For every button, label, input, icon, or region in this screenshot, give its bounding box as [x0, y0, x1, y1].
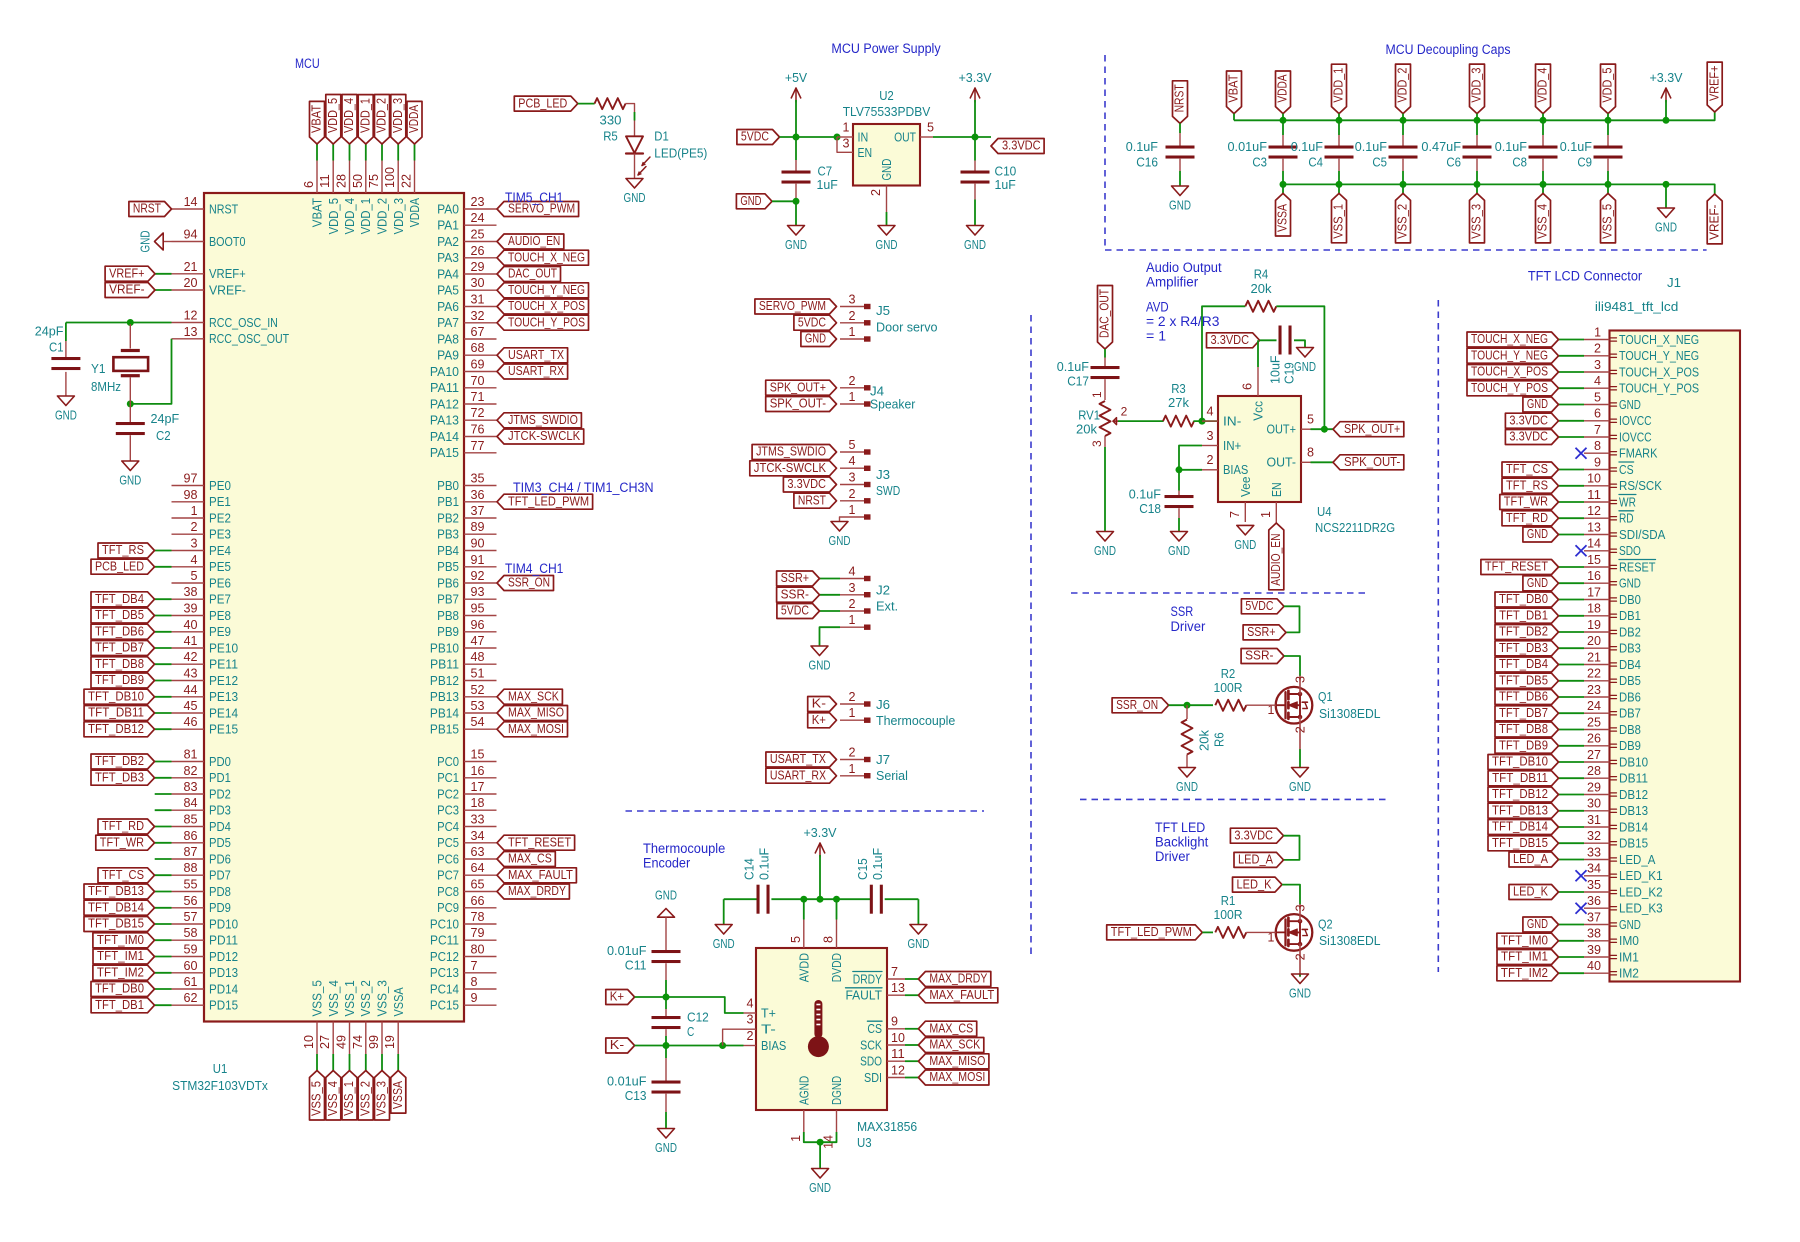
svg-text:8: 8 — [1594, 439, 1601, 453]
thermometer icon — [808, 1000, 829, 1057]
svg-text:35: 35 — [1587, 878, 1601, 892]
svg-text:100R: 100R — [1213, 680, 1242, 695]
wire — [905, 978, 918, 980]
pin EN (3) — [837, 137, 872, 160]
U1 reference — [213, 1061, 228, 1076]
pin SDI/SDA (13) — [1584, 520, 1666, 542]
svg-text:PE12: PE12 — [209, 673, 238, 688]
C5 reference — [1372, 155, 1387, 170]
svg-text:VDD_2: VDD_2 — [1396, 68, 1410, 103]
wire — [129, 404, 131, 422]
svg-text:4: 4 — [747, 996, 754, 1010]
svg-text:TFT_RS: TFT_RS — [102, 543, 144, 557]
svg-text:94: 94 — [184, 228, 198, 242]
svg-text:PC11: PC11 — [430, 933, 459, 948]
global label MAX_SCK — [918, 1038, 983, 1053]
junction — [1199, 418, 1206, 425]
svg-text:GND: GND — [1619, 917, 1641, 932]
R3 reference — [1171, 381, 1186, 396]
pin PB4 (90) — [437, 537, 496, 558]
svg-text:T-: T- — [761, 1022, 776, 1037]
J4 value — [870, 397, 916, 412]
pin PB11 (48) — [430, 650, 497, 671]
svg-text:93: 93 — [471, 585, 485, 599]
wire — [905, 1044, 918, 1046]
svg-text:0.1uF: 0.1uF — [1126, 139, 1158, 154]
svg-text:LED_A: LED_A — [1238, 853, 1274, 867]
pin RS/SCK (10) — [1584, 472, 1662, 494]
global label K+ — [808, 713, 837, 728]
global label JTCK-SWCLK — [497, 429, 584, 444]
svg-text:32: 32 — [471, 309, 485, 323]
svg-text:PD13: PD13 — [209, 965, 238, 980]
wire — [1559, 826, 1585, 828]
wire — [1294, 340, 1305, 347]
C10 reference — [995, 164, 1017, 179]
svg-text:97: 97 — [184, 472, 198, 486]
C4 reference — [1308, 155, 1323, 170]
pin TOUCH_Y_POS (4) — [1584, 374, 1699, 396]
global label 3.3VDC — [1505, 413, 1558, 428]
wire — [795, 100, 797, 137]
svg-text:Driver: Driver — [1171, 619, 1206, 634]
C1 value — [35, 324, 64, 339]
pin PC7 (64) — [437, 861, 496, 882]
pin PC9 (66) — [437, 894, 496, 915]
wire — [819, 1142, 821, 1168]
svg-text:GND: GND — [138, 231, 153, 253]
svg-text:PD14: PD14 — [209, 981, 238, 996]
wire — [625, 104, 634, 112]
wire — [1282, 184, 1284, 193]
global label 5VDC — [737, 130, 780, 145]
wire — [1233, 114, 1235, 121]
pin PE2 (1) — [172, 504, 231, 525]
svg-text:33: 33 — [471, 813, 485, 827]
svg-text:Si1308EDL: Si1308EDL — [1319, 933, 1381, 948]
pin TOUCH_Y_NEG (2) — [1584, 342, 1699, 364]
global label TFT_IM1 — [93, 949, 155, 964]
svg-text:53: 53 — [471, 699, 485, 713]
svg-text:PE5: PE5 — [209, 559, 231, 574]
svg-text:MAX_SCK: MAX_SCK — [508, 690, 559, 704]
capacitor C9 — [1594, 146, 1623, 159]
svg-text:4: 4 — [849, 565, 856, 579]
svg-text:TIM4_CH1: TIM4_CH1 — [505, 561, 563, 576]
svg-text:TFT_DB0: TFT_DB0 — [1499, 592, 1548, 606]
wire — [155, 988, 172, 990]
svg-text:0.1uF: 0.1uF — [757, 848, 772, 880]
svg-text:26: 26 — [1587, 732, 1601, 746]
global label TOUCH_Y_NEG — [1467, 348, 1559, 363]
wire — [1179, 171, 1181, 186]
pin DVDD (8) — [822, 920, 845, 983]
svg-text:3: 3 — [1090, 440, 1104, 447]
wire — [1246, 704, 1276, 706]
pin VSS_1 (49) — [335, 980, 358, 1054]
svg-text:GND: GND — [1527, 576, 1548, 590]
svg-text:0.1uF: 0.1uF — [1495, 139, 1527, 154]
resistor R4 — [1245, 301, 1276, 312]
svg-text:54: 54 — [471, 715, 485, 729]
ground (C2) — [119, 461, 141, 488]
wire rail right — [885, 898, 919, 900]
wire — [1299, 749, 1301, 767]
svg-text:VDD_1: VDD_1 — [358, 98, 372, 133]
svg-text:PB9: PB9 — [437, 624, 459, 639]
pin DGND (14) — [822, 1076, 845, 1149]
svg-text:TFT_DB10: TFT_DB10 — [1492, 755, 1548, 769]
svg-text:R4: R4 — [1254, 267, 1269, 282]
svg-text:47: 47 — [471, 634, 485, 648]
svg-text:GND: GND — [876, 237, 898, 252]
svg-text:VSS_3: VSS_3 — [375, 980, 390, 1016]
svg-text:27: 27 — [1587, 748, 1601, 762]
svg-text:TFT_RESET: TFT_RESET — [508, 836, 571, 850]
pin VSS_3 (99) — [367, 980, 390, 1054]
svg-text:81: 81 — [184, 748, 198, 762]
pin PD11 (58) — [172, 926, 239, 947]
pin FAULT (13) — [846, 981, 906, 1003]
svg-text:TFT_IM2: TFT_IM2 — [97, 966, 144, 980]
junction — [817, 1139, 824, 1146]
svg-text:TFT_IM1: TFT_IM1 — [97, 949, 144, 963]
svg-text:TFT_RESET: TFT_RESET — [1485, 560, 1548, 574]
pin PC5 (34) — [437, 829, 496, 850]
U4 reference — [1317, 504, 1332, 519]
svg-text:VDD_4: VDD_4 — [342, 98, 356, 133]
svg-text:PA2: PA2 — [437, 234, 459, 249]
svg-text:0.1uF: 0.1uF — [1355, 139, 1387, 154]
wire rail middle — [771, 898, 871, 900]
global label SSR+ — [777, 571, 820, 586]
svg-text:MAX_CS: MAX_CS — [929, 1022, 973, 1036]
svg-text:DB11: DB11 — [1619, 771, 1648, 786]
wire — [1559, 420, 1585, 422]
svg-text:29: 29 — [1587, 780, 1601, 794]
svg-text:30: 30 — [471, 276, 485, 290]
pin DB15 (32) — [1584, 829, 1648, 851]
junction — [1663, 117, 1670, 124]
svg-text:87: 87 — [184, 845, 198, 859]
svg-text:TFT_CS: TFT_CS — [102, 868, 144, 882]
U3 value — [857, 1119, 917, 1134]
capacitor C18 — [1165, 495, 1194, 508]
wire — [578, 103, 595, 105]
svg-text:MAX_MOSI: MAX_MOSI — [508, 722, 564, 736]
pin PC3 (18) — [437, 796, 496, 817]
svg-text:TFT_DB12: TFT_DB12 — [1492, 787, 1548, 801]
wire — [1559, 517, 1585, 519]
pin PC10 (78) — [430, 910, 497, 931]
svg-text:PB7: PB7 — [437, 592, 459, 607]
capacitor C5 — [1389, 146, 1418, 159]
wire — [905, 1028, 918, 1030]
global label TFT_DB8 — [91, 657, 155, 672]
svg-text:25: 25 — [471, 228, 485, 242]
global label TFT_DB15 — [84, 917, 155, 932]
wire — [1260, 339, 1277, 341]
global label TFT_RESET — [497, 835, 575, 850]
svg-text:+3.3V: +3.3V — [803, 825, 836, 840]
svg-text:4: 4 — [191, 553, 198, 567]
svg-text:LED_A: LED_A — [1619, 852, 1656, 867]
svg-text:3.3VDC: 3.3VDC — [787, 477, 826, 491]
wire — [839, 517, 842, 522]
note text — [1146, 275, 1199, 290]
wire — [917, 899, 919, 924]
wire — [1559, 647, 1585, 649]
svg-text:7: 7 — [891, 965, 898, 979]
wire — [1665, 184, 1667, 208]
global label TFT_DB12 — [1488, 787, 1559, 802]
svg-text:PE11: PE11 — [209, 657, 238, 672]
J6 value — [876, 713, 955, 728]
global label VDDA — [1276, 71, 1291, 114]
global label SSR_ON — [497, 576, 554, 591]
svg-text:J2: J2 — [876, 583, 890, 598]
global label USART_RX — [766, 768, 837, 783]
svg-text:78: 78 — [471, 910, 485, 924]
global label USART_TX — [497, 348, 568, 363]
capacitor C3 — [1269, 146, 1298, 159]
svg-text:NRST: NRST — [798, 493, 826, 507]
wire — [332, 144, 334, 161]
svg-text:JTCK-SWCLK: JTCK-SWCLK — [508, 429, 581, 443]
junction — [1176, 466, 1183, 473]
svg-text:PC1: PC1 — [437, 770, 459, 785]
wire — [665, 1036, 667, 1046]
svg-text:63: 63 — [471, 845, 485, 859]
svg-text:0.1uF: 0.1uF — [1129, 487, 1161, 502]
wire — [155, 939, 172, 941]
global label PCB_LED — [91, 559, 155, 574]
svg-text:16: 16 — [471, 764, 485, 778]
global label TFT_DB1 — [1495, 608, 1558, 623]
pin PE7 (38) — [172, 585, 231, 606]
resistor R5 — [595, 98, 626, 109]
svg-text:19: 19 — [383, 1035, 397, 1049]
wire — [1559, 745, 1585, 747]
svg-text:TFT_LED_PWM: TFT_LED_PWM — [508, 494, 589, 508]
wire — [155, 696, 172, 698]
svg-text:PD7: PD7 — [209, 868, 231, 883]
svg-text:0.01uF: 0.01uF — [1228, 139, 1268, 154]
svg-text:40: 40 — [184, 618, 198, 632]
global label TOUCH_Y_NEG — [497, 283, 589, 298]
wire TFT_LED_PWM to R1 — [1202, 931, 1213, 933]
junction — [1540, 117, 1547, 124]
svg-text:PA12: PA12 — [430, 396, 459, 411]
svg-text:MCU Decoupling Caps: MCU Decoupling Caps — [1386, 42, 1511, 57]
wire — [905, 994, 918, 996]
svg-text:VDD_3: VDD_3 — [391, 98, 405, 133]
wire — [1178, 508, 1180, 518]
global label VREF+ — [105, 266, 155, 281]
pin DB6 (23) — [1584, 683, 1641, 705]
svg-text:9: 9 — [891, 1015, 898, 1029]
svg-text:40: 40 — [1587, 959, 1601, 973]
svg-text:PCB_LED: PCB_LED — [518, 96, 567, 110]
svg-text:SSR-: SSR- — [781, 588, 809, 602]
ground (J3) — [829, 522, 851, 549]
svg-text:3: 3 — [849, 293, 856, 307]
svg-text:R2: R2 — [1221, 666, 1236, 681]
pin PE11 (42) — [172, 650, 239, 671]
svg-text:R6: R6 — [1212, 732, 1227, 747]
J1 reference — [1667, 275, 1681, 290]
global label MAX_FAULT — [497, 868, 576, 883]
C16 reference — [1136, 155, 1158, 170]
wire SSR- to Q1 drain — [1284, 656, 1300, 676]
svg-text:17: 17 — [1587, 585, 1601, 599]
wire — [1402, 114, 1404, 121]
global label NRST — [129, 202, 172, 217]
svg-text:5: 5 — [1594, 390, 1601, 404]
pin PA8 (67) — [437, 325, 496, 346]
svg-text:DAC_OUT: DAC_OUT — [508, 267, 557, 281]
svg-text:VDDA: VDDA — [407, 104, 421, 133]
svg-text:5: 5 — [191, 569, 198, 583]
wire — [1476, 159, 1478, 171]
pin 2 — [840, 690, 871, 707]
svg-text:Backlight: Backlight — [1155, 835, 1209, 850]
svg-text:2: 2 — [849, 309, 856, 323]
svg-text:TFT_IM0: TFT_IM0 — [97, 933, 144, 947]
pin SDI (12) — [864, 1063, 905, 1085]
svg-text:PB6: PB6 — [437, 575, 459, 590]
svg-text:PC7: PC7 — [437, 868, 459, 883]
svg-text:15: 15 — [1587, 553, 1601, 567]
wire OUT+ net — [1311, 428, 1334, 430]
svg-text:OUT+: OUT+ — [1267, 422, 1297, 437]
R5 reference — [603, 129, 618, 144]
ground (U4 Vee) — [1234, 525, 1256, 552]
pin OUT (5) — [894, 121, 934, 145]
pin IN+ (3) — [1202, 429, 1241, 453]
svg-text:GND: GND — [1527, 397, 1548, 411]
wire rail left — [724, 898, 758, 900]
pin BIAS (2) — [744, 1029, 787, 1053]
svg-text:VDD_2: VDD_2 — [375, 98, 389, 133]
svg-text:PA14: PA14 — [430, 429, 459, 444]
IC U3 MAX31856 body — [756, 948, 887, 1110]
svg-text:2: 2 — [849, 746, 856, 760]
svg-text:3: 3 — [191, 537, 198, 551]
wire — [1104, 379, 1106, 400]
potentiometer RV1 — [1090, 391, 1128, 447]
section divider — [1080, 798, 1390, 800]
pin PD1 (82) — [172, 764, 231, 785]
wire — [1282, 135, 1284, 146]
pin PA12 (71) — [430, 390, 497, 411]
pin IM2 (40) — [1584, 959, 1639, 981]
svg-text:C4: C4 — [1308, 155, 1323, 170]
global label TFT_IM0 — [93, 933, 155, 948]
svg-text:K+: K+ — [812, 713, 826, 727]
global label VDD_3 — [1470, 64, 1485, 114]
svg-text:TFT_IM1: TFT_IM1 — [1501, 950, 1548, 964]
svg-text:GND: GND — [879, 159, 894, 181]
pin PA7 (32) — [437, 309, 496, 330]
svg-text:37: 37 — [1587, 910, 1601, 924]
svg-text:21: 21 — [1587, 650, 1601, 664]
svg-text:VSS_5: VSS_5 — [310, 1081, 324, 1116]
svg-text:VDD_1: VDD_1 — [1332, 68, 1346, 103]
svg-text:SDI/SDA: SDI/SDA — [1619, 527, 1666, 542]
svg-text:VSS_3: VSS_3 — [1470, 204, 1484, 239]
global label GND — [736, 194, 772, 209]
transistor Q2 Si1308EDL — [1268, 904, 1313, 976]
svg-text:70: 70 — [471, 374, 485, 388]
pin PA0 (23) — [437, 195, 496, 216]
global label TFT_DB7 — [91, 641, 155, 656]
pin PC1 (16) — [437, 764, 496, 785]
R1 reference — [1221, 893, 1236, 908]
svg-text:GND: GND — [809, 658, 831, 673]
capacitor C11 — [652, 950, 681, 963]
C11 value — [607, 943, 647, 958]
svg-text:3.3VDC: 3.3VDC — [1211, 333, 1250, 347]
svg-text:R1: R1 — [1221, 893, 1236, 908]
svg-text:TFT_DB5: TFT_DB5 — [95, 608, 144, 622]
global label 5VDC — [777, 604, 820, 619]
pin PC13 (7) — [430, 959, 497, 980]
svg-text:VBAT: VBAT — [310, 105, 324, 133]
wire — [634, 154, 636, 179]
svg-text:43: 43 — [184, 667, 198, 681]
svg-text:TOUCH_Y_NEG: TOUCH_Y_NEG — [1619, 348, 1699, 363]
pin T- (3) — [744, 1013, 776, 1037]
svg-text:5VDC: 5VDC — [781, 604, 809, 618]
wire — [1282, 159, 1284, 171]
svg-text:Y1: Y1 — [91, 361, 106, 376]
global label VSS_3 — [1470, 193, 1485, 243]
ground (D1) — [624, 179, 646, 206]
svg-text:LED(PE5): LED(PE5) — [654, 145, 707, 160]
svg-text:65: 65 — [471, 878, 485, 892]
svg-text:PC8: PC8 — [437, 884, 459, 899]
global label TFT_DB9 — [91, 673, 155, 688]
svg-text:LED_K: LED_K — [1237, 877, 1273, 891]
svg-text:3: 3 — [849, 581, 856, 595]
note text — [505, 561, 563, 576]
svg-text:U2: U2 — [879, 88, 894, 103]
pin DB7 (24) — [1584, 699, 1641, 721]
global label MAX_CS — [918, 1021, 976, 1036]
wire — [155, 615, 172, 617]
capacitor C8 — [1529, 146, 1558, 159]
pin PE5 (4) — [172, 553, 231, 574]
svg-text:IN+: IN+ — [1223, 438, 1241, 453]
wire — [155, 663, 172, 665]
ground (U2) — [876, 226, 898, 253]
wire K+ to T+ — [635, 997, 744, 1013]
capacitor C7 — [782, 171, 811, 184]
global label LED_A — [1509, 852, 1559, 867]
svg-text:TFT_DB13: TFT_DB13 — [1492, 804, 1548, 818]
wire — [1559, 891, 1585, 893]
note text — [1146, 329, 1166, 344]
global label TFT_DB9 — [1495, 738, 1559, 753]
svg-text:MCU: MCU — [295, 56, 320, 71]
svg-text:Amplifier: Amplifier — [1146, 275, 1199, 290]
junction — [1474, 181, 1481, 188]
svg-text:4: 4 — [1594, 374, 1601, 388]
wire — [1299, 974, 1301, 976]
global label TOUCH_X_POS — [497, 299, 589, 314]
svg-text:90: 90 — [471, 537, 485, 551]
